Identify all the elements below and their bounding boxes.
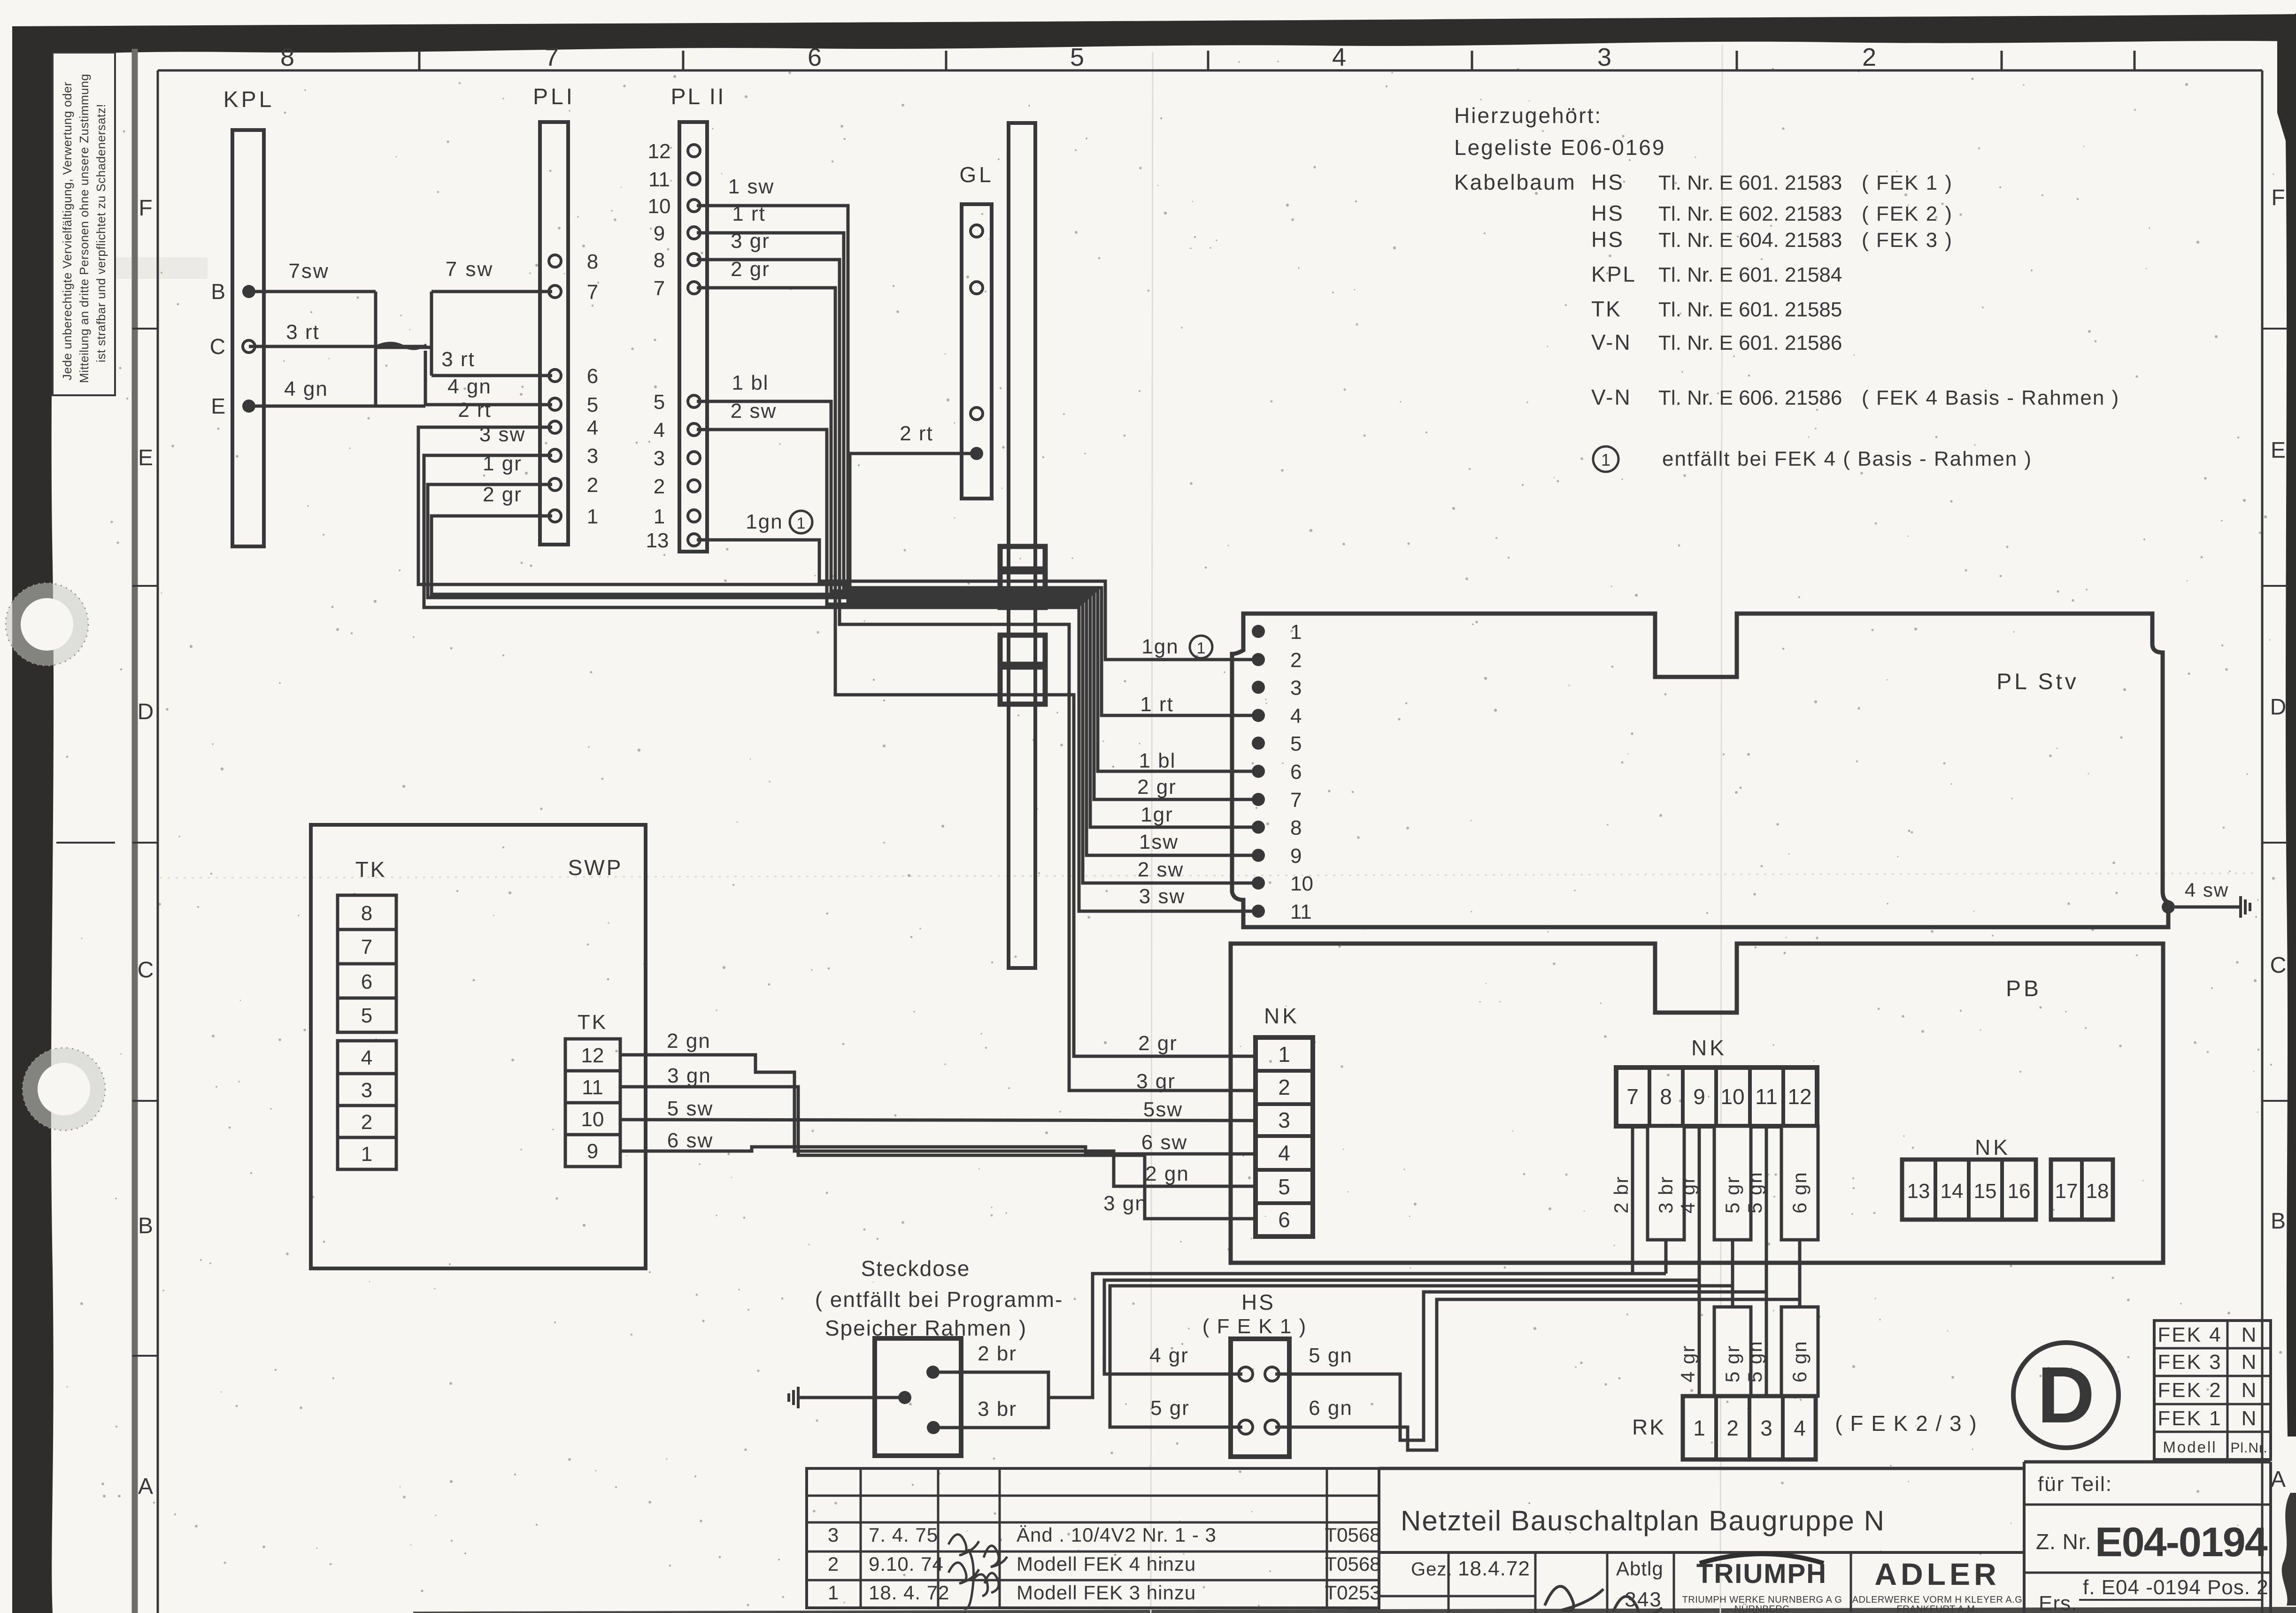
svg-text:6: 6	[1278, 1207, 1290, 1232]
svg-text:2 gr: 2 gr	[1137, 776, 1177, 799]
svg-text:3: 3	[1290, 676, 1302, 699]
svg-text:4 gn: 4 gn	[447, 375, 492, 398]
svg-text:2: 2	[361, 1111, 372, 1134]
svg-text:10: 10	[1290, 872, 1313, 895]
svg-text:1gr: 1gr	[1140, 803, 1173, 826]
svg-text:4 gr: 4 gr	[1677, 1176, 1699, 1214]
svg-text:1: 1	[1290, 621, 1302, 644]
svg-text:3 gr: 3 gr	[731, 230, 770, 253]
svg-text:N: N	[2242, 1351, 2257, 1374]
svg-text:( F E K 2 / 3 ): ( F E K 2 / 3 )	[1835, 1411, 1978, 1436]
svg-text:2: 2	[1278, 1075, 1290, 1099]
svg-text:1: 1	[797, 515, 806, 532]
svg-text:1 bl: 1 bl	[1139, 749, 1176, 772]
svg-text:3: 3	[1597, 43, 1611, 71]
svg-text:7: 7	[587, 281, 598, 304]
svg-text:3 br: 3 br	[1655, 1176, 1677, 1214]
svg-text:C: C	[2270, 953, 2287, 978]
svg-text:3 rt: 3 rt	[286, 321, 320, 344]
svg-text:3 gn: 3 gn	[1103, 1192, 1148, 1215]
svg-text:7sw: 7sw	[288, 260, 329, 283]
svg-text:HS: HS	[1241, 1290, 1275, 1314]
svg-text:NÜRNBERG: NÜRNBERG	[1734, 1604, 1790, 1613]
svg-text:( FEK 2 ): ( FEK 2 )	[1862, 202, 1953, 225]
svg-text:F: F	[139, 196, 152, 221]
svg-text:9: 9	[1290, 845, 1302, 868]
svg-text:2 rt: 2 rt	[900, 422, 933, 445]
svg-text:Hierzugehört:: Hierzugehört:	[1454, 103, 1602, 128]
svg-text:8: 8	[654, 249, 665, 272]
svg-text:1 bl: 1 bl	[732, 371, 769, 394]
svg-text:1 gr: 1 gr	[483, 452, 522, 475]
svg-text:TK: TK	[355, 857, 387, 882]
svg-text:7: 7	[361, 936, 372, 959]
svg-text:Tl. Nr. E 601. 21583: Tl. Nr. E 601. 21583	[1658, 171, 1842, 194]
svg-text:1: 1	[1601, 450, 1610, 469]
svg-text:18.4.72: 18.4.72	[1458, 1557, 1530, 1580]
svg-text:2 gr: 2 gr	[731, 258, 770, 281]
svg-text:7: 7	[545, 43, 559, 71]
svg-text:8: 8	[587, 250, 598, 273]
svg-text:N: N	[2242, 1323, 2257, 1346]
svg-text:B: B	[2271, 1209, 2286, 1234]
svg-text:6 gn: 6 gn	[1309, 1397, 1353, 1420]
svg-text:Abtlg: Abtlg	[1616, 1558, 1664, 1580]
svg-text:1: 1	[361, 1143, 372, 1166]
svg-text:8: 8	[1660, 1084, 1672, 1109]
svg-text:7: 7	[654, 277, 665, 300]
svg-text:E: E	[211, 394, 225, 418]
svg-text:ADLER: ADLER	[1874, 1557, 2000, 1591]
svg-text:TK: TK	[1591, 297, 1622, 321]
svg-text:für Teil:: für Teil:	[2038, 1473, 2112, 1496]
svg-text:11: 11	[648, 168, 670, 191]
svg-text:2 sw: 2 sw	[1138, 858, 1184, 881]
svg-text:6: 6	[808, 43, 822, 71]
svg-text:1 sw: 1 sw	[728, 175, 774, 198]
svg-text:8: 8	[1290, 816, 1302, 839]
svg-text:FRANKFURT A.M.: FRANKFURT A.M.	[1897, 1604, 1978, 1613]
svg-text:Netzteil Bauschaltplan Baugr: Netzteil Bauschaltplan Baugruppe N	[1401, 1505, 1885, 1536]
svg-text:T0253: T0253	[1325, 1582, 1380, 1604]
svg-text:5 sw: 5 sw	[667, 1097, 713, 1120]
svg-text:E: E	[138, 445, 153, 470]
svg-text:5: 5	[1290, 732, 1302, 755]
svg-text:D: D	[138, 699, 154, 724]
svg-text:11: 11	[582, 1076, 603, 1099]
svg-text:3: 3	[587, 445, 598, 468]
svg-text:HS: HS	[1591, 227, 1624, 252]
svg-text:343: 343	[1625, 1588, 1662, 1611]
svg-text:9: 9	[1693, 1084, 1705, 1109]
svg-text:5 gr: 5 gr	[1721, 1345, 1743, 1383]
svg-text:3 gn: 3 gn	[667, 1064, 711, 1087]
svg-text:11: 11	[1290, 900, 1312, 923]
svg-text:Kabelbaum: Kabelbaum	[1454, 170, 1576, 194]
svg-text:T0568: T0568	[1325, 1524, 1380, 1546]
svg-text:Mitteilung an dritte Personen: Mitteilung an dritte Personen ohne unser…	[77, 74, 91, 383]
svg-text:TRIUMPH: TRIUMPH	[1696, 1559, 1827, 1589]
svg-text:12: 12	[581, 1044, 604, 1067]
svg-text:4: 4	[587, 416, 598, 439]
svg-text:5 gn: 5 gn	[1744, 1340, 1766, 1383]
svg-text:FEK 4: FEK 4	[2157, 1323, 2222, 1346]
svg-text:1: 1	[1197, 639, 1206, 657]
svg-text:6: 6	[361, 970, 372, 993]
svg-text:B: B	[211, 279, 225, 304]
svg-text:5 gr: 5 gr	[1721, 1176, 1743, 1214]
svg-text:ist strafbar und verpflichtet: ist strafbar und verpflichtet zu Schaden…	[94, 104, 108, 362]
svg-text:10: 10	[581, 1108, 604, 1131]
svg-text:Tl. Nr. E 601. 21584: Tl. Nr. E 601. 21584	[1658, 263, 1842, 286]
svg-text:( FEK 1 ): ( FEK 1 )	[1862, 171, 1953, 194]
svg-text:1: 1	[654, 505, 665, 528]
svg-text:F: F	[2271, 185, 2285, 210]
svg-text:7: 7	[1626, 1084, 1639, 1109]
svg-text:FEK 2: FEK 2	[2157, 1379, 2222, 1402]
svg-text:5 gr: 5 gr	[1150, 1397, 1190, 1420]
svg-text:5 gn: 5 gn	[1744, 1171, 1766, 1214]
svg-text:Modell FEK 3 hinzu: Modell FEK 3 hinzu	[1017, 1582, 1196, 1604]
svg-text:3 gr: 3 gr	[1136, 1070, 1176, 1093]
svg-text:2: 2	[654, 475, 665, 498]
svg-text:3 sw: 3 sw	[479, 423, 525, 446]
svg-text:18. 4. 72: 18. 4. 72	[869, 1582, 949, 1604]
svg-text:3: 3	[1278, 1108, 1290, 1132]
svg-text:PLI: PLI	[533, 84, 575, 109]
svg-text:E04-0194: E04-0194	[2095, 1519, 2268, 1565]
svg-text:4 sw: 4 sw	[2185, 879, 2229, 901]
svg-text:Tl. Nr. E 602. 21583: Tl. Nr. E 602. 21583	[1658, 202, 1842, 225]
svg-text:FEK 1: FEK 1	[2157, 1407, 2222, 1430]
svg-text:10: 10	[648, 195, 671, 218]
svg-text:6 gn: 6 gn	[1788, 1171, 1811, 1214]
svg-text:KPL: KPL	[223, 87, 275, 112]
svg-text:1 rt: 1 rt	[1140, 693, 1174, 716]
svg-text:5: 5	[1070, 43, 1084, 71]
svg-text:N: N	[2242, 1379, 2257, 1402]
svg-text:A: A	[2271, 1467, 2286, 1492]
svg-text:Z. Nr.: Z. Nr.	[2036, 1529, 2091, 1554]
svg-text:3 rt: 3 rt	[441, 348, 475, 371]
svg-text:Tl. Nr. E 601. 21586: Tl. Nr. E 601. 21586	[1658, 331, 1842, 354]
svg-text:TRIUMPH WERKE NURNBERG A G: TRIUMPH WERKE NURNBERG A G	[1682, 1595, 1842, 1605]
svg-text:1: 1	[828, 1582, 839, 1604]
svg-text:V-N: V-N	[1591, 385, 1632, 409]
svg-text:7. 4. 75: 7. 4. 75	[869, 1524, 938, 1546]
svg-text:2 sw: 2 sw	[731, 399, 777, 422]
svg-text:2 br: 2 br	[1610, 1176, 1632, 1214]
svg-text:5: 5	[1278, 1175, 1290, 1199]
svg-text:T0568: T0568	[1325, 1553, 1380, 1575]
svg-text:4: 4	[1278, 1141, 1290, 1165]
svg-text:13: 13	[1907, 1180, 1930, 1203]
svg-text:Legeliste E06-0169: Legeliste E06-0169	[1454, 135, 1665, 160]
svg-text:HS: HS	[1591, 201, 1624, 225]
svg-text:6: 6	[1290, 760, 1302, 783]
svg-text:C: C	[138, 958, 154, 983]
svg-text:SWP: SWP	[568, 855, 623, 880]
svg-text:( FEK 3 ): ( FEK 3 )	[1862, 229, 1953, 252]
svg-text:Modell: Modell	[2163, 1438, 2217, 1456]
svg-text:17: 17	[2055, 1180, 2078, 1203]
svg-text:3: 3	[654, 447, 665, 470]
svg-text:5: 5	[654, 391, 665, 414]
svg-text:TK: TK	[578, 1011, 608, 1034]
svg-text:1 rt: 1 rt	[732, 202, 766, 225]
svg-text:ADLERWERKE VORM H KLEYER A.G: ADLERWERKE VORM H KLEYER A.G	[1852, 1595, 2023, 1605]
svg-text:6 sw: 6 sw	[1141, 1131, 1187, 1154]
svg-text:9.10. 74: 9.10. 74	[869, 1553, 944, 1575]
svg-text:8: 8	[361, 902, 372, 925]
svg-text:3 br: 3 br	[978, 1398, 1017, 1421]
svg-text:entfällt bei FEK 4 ( Basis: entfällt bei FEK 4 ( Basis - Rahmen )	[1662, 447, 2032, 470]
svg-text:( F E K 1 ): ( F E K 1 )	[1202, 1315, 1307, 1338]
svg-text:NK: NK	[1975, 1135, 2011, 1160]
svg-text:1gn: 1gn	[746, 510, 783, 533]
svg-text:2: 2	[828, 1553, 839, 1575]
svg-text:NK: NK	[1264, 1004, 1300, 1028]
svg-text:14: 14	[1941, 1180, 1964, 1203]
svg-text:2 rt: 2 rt	[458, 399, 492, 422]
svg-text:5: 5	[587, 393, 598, 416]
svg-text:3: 3	[361, 1079, 372, 1102]
svg-text:HS: HS	[1591, 170, 1624, 194]
svg-text:6 gn: 6 gn	[1788, 1340, 1811, 1383]
svg-text:N: N	[2242, 1407, 2257, 1430]
svg-text:3 sw: 3 sw	[1139, 885, 1185, 908]
svg-text:13: 13	[646, 529, 669, 552]
svg-text:Gez.: Gez.	[1411, 1559, 1452, 1580]
svg-text:Jede unberechtigte Vervielfält: Jede unberechtigte Vervielfältigung, Ver…	[60, 82, 74, 380]
svg-text:12: 12	[648, 140, 671, 163]
svg-text:PL Stv: PL Stv	[1996, 669, 2079, 694]
svg-text:5 gn: 5 gn	[1309, 1344, 1353, 1367]
svg-text:4: 4	[1794, 1416, 1806, 1440]
svg-text:Pl.Nr.: Pl.Nr.	[2230, 1440, 2267, 1456]
svg-text:Tl. Nr. E 601. 21585: Tl. Nr. E 601. 21585	[1658, 298, 1842, 321]
svg-text:4: 4	[1332, 43, 1346, 71]
svg-text:D: D	[2270, 695, 2287, 720]
svg-text:Änd . 10/4V2 Nr. 1 - 3: Änd . 10/4V2 Nr. 1 - 3	[1017, 1524, 1217, 1546]
svg-text:10: 10	[1720, 1084, 1744, 1109]
svg-text:Tl. Nr. E 604. 21583: Tl. Nr. E 604. 21583	[1658, 229, 1842, 252]
svg-text:B: B	[138, 1214, 153, 1238]
svg-text:PL II: PL II	[671, 84, 726, 109]
svg-text:FEK 3: FEK 3	[2157, 1351, 2222, 1374]
svg-text:V-N: V-N	[1591, 330, 1632, 354]
svg-text:Steckdose: Steckdose	[861, 1256, 971, 1281]
svg-text:2 gn: 2 gn	[667, 1029, 711, 1052]
svg-text:1: 1	[587, 505, 598, 528]
svg-text:1: 1	[1278, 1042, 1290, 1067]
svg-text:2 gn: 2 gn	[1145, 1162, 1189, 1185]
svg-text:1sw: 1sw	[1139, 830, 1179, 853]
svg-text:C: C	[210, 334, 225, 359]
svg-text:15: 15	[1974, 1180, 1997, 1203]
svg-text:RK: RK	[1632, 1415, 1666, 1439]
svg-text:6 sw: 6 sw	[667, 1129, 713, 1152]
svg-text:7: 7	[1290, 789, 1302, 812]
svg-text:2: 2	[587, 474, 598, 497]
svg-text:16: 16	[2008, 1180, 2031, 1203]
svg-text:Tl. Nr. E 606. 21586: Tl. Nr. E 606. 21586	[1658, 386, 1842, 409]
svg-text:9: 9	[587, 1140, 598, 1163]
svg-text:A: A	[138, 1474, 153, 1499]
svg-text:5: 5	[361, 1004, 372, 1027]
svg-text:( entfällt bei Programm-: ( entfällt bei Programm-	[815, 1287, 1063, 1312]
svg-text:2 gr: 2 gr	[1138, 1032, 1178, 1055]
svg-text:GL: GL	[959, 162, 994, 187]
svg-text:PB: PB	[2006, 976, 2042, 1001]
svg-text:18: 18	[2086, 1180, 2109, 1203]
svg-text:3: 3	[828, 1524, 839, 1546]
svg-text:KPL: KPL	[1591, 262, 1636, 286]
svg-text:1: 1	[1693, 1416, 1705, 1440]
svg-text:4: 4	[361, 1046, 372, 1069]
svg-text:2 br: 2 br	[978, 1342, 1017, 1365]
svg-text:5sw: 5sw	[1143, 1098, 1183, 1121]
svg-text:2: 2	[1290, 649, 1302, 672]
svg-text:9: 9	[654, 222, 665, 245]
svg-text:E: E	[2271, 438, 2286, 463]
svg-text:4 gn: 4 gn	[284, 377, 328, 400]
svg-text:2: 2	[1862, 43, 1876, 71]
svg-text:6: 6	[587, 365, 598, 388]
svg-text:( FEK 4 Basis - Rahmen ): ( FEK 4 Basis - Rahmen )	[1862, 386, 2119, 409]
svg-text:7 sw: 7 sw	[446, 258, 493, 281]
svg-text:NK: NK	[1691, 1036, 1727, 1060]
svg-text:8: 8	[280, 43, 294, 71]
svg-text:D: D	[2037, 1351, 2095, 1440]
svg-text:4 gr: 4 gr	[1677, 1345, 1699, 1383]
svg-text:4: 4	[1290, 705, 1302, 728]
svg-text:1gn: 1gn	[1141, 635, 1179, 658]
svg-text:4: 4	[654, 419, 665, 442]
svg-text:2: 2	[1726, 1416, 1739, 1440]
svg-text:4 gr: 4 gr	[1149, 1344, 1189, 1367]
svg-text:Modell FEK 4 hinzu: Modell FEK 4 hinzu	[1017, 1553, 1196, 1575]
svg-text:12: 12	[1787, 1084, 1811, 1109]
svg-text:3: 3	[1760, 1416, 1772, 1440]
svg-text:f. E04 -0194 Pos. 2: f. E04 -0194 Pos. 2	[2083, 1576, 2269, 1599]
svg-text:11: 11	[1755, 1084, 1778, 1109]
svg-text:Ers.: Ers.	[2039, 1592, 2077, 1613]
svg-text:2 gr: 2 gr	[483, 483, 522, 506]
